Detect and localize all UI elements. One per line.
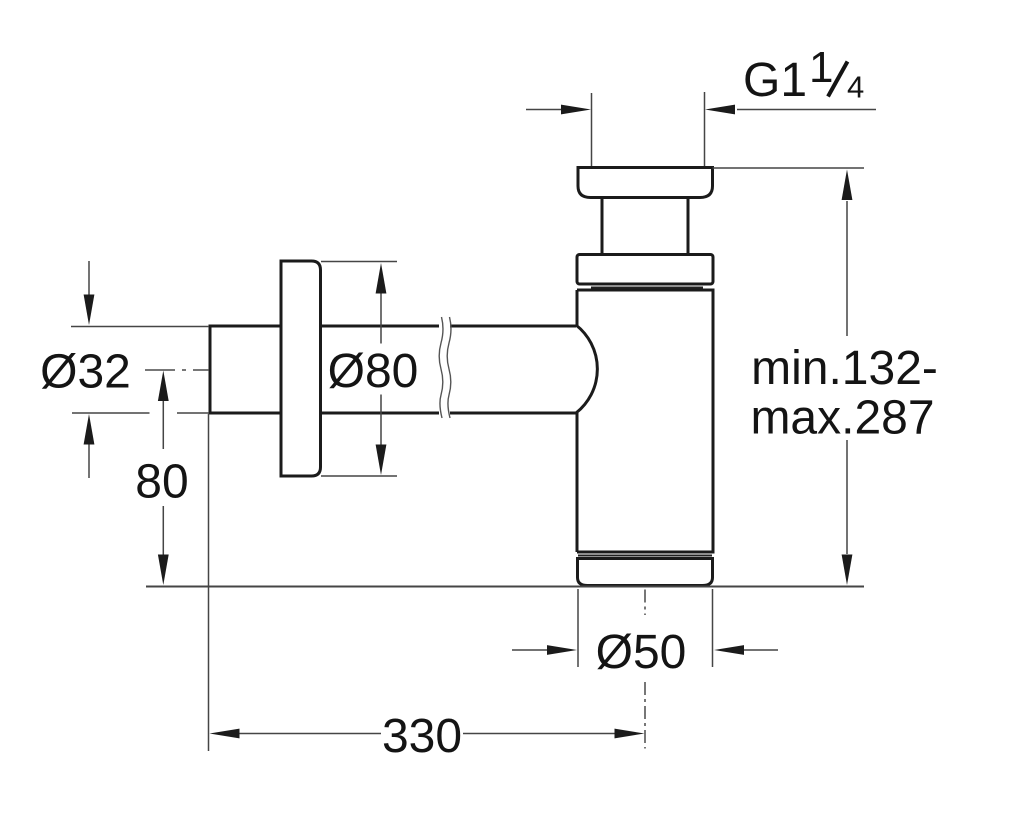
dia80 dimension line <box>380 292 382 446</box>
arrow dia80 down <box>376 445 387 476</box>
horizontal pipe top edge <box>210 325 576 328</box>
arrow dia32 down <box>84 295 95 326</box>
svg-text:330: 330 <box>382 710 462 763</box>
joint line above cap <box>578 555 712 557</box>
body centerline below <box>644 590 646 749</box>
minmax dimension line <box>846 201 848 554</box>
dim330 extension left <box>208 414 210 751</box>
arrow minmax down <box>842 555 853 586</box>
svg-text:max.287: max.287 <box>750 392 934 445</box>
dim330 dimension line <box>239 733 615 735</box>
arrow dia32 up <box>84 414 95 445</box>
dia50 extension left <box>577 589 579 667</box>
arrow dim80 up <box>158 371 169 402</box>
collar ring <box>577 255 713 285</box>
dia80 extension top <box>321 261 397 263</box>
dim80 dimension line <box>162 401 164 556</box>
arrow dia50 right <box>547 645 577 655</box>
G1 extension line right <box>704 92 706 166</box>
svg-text:4: 4 <box>847 70 864 105</box>
arrow dim330 right <box>615 729 645 739</box>
horizontal pipe bottom edge <box>210 412 576 415</box>
dia50 dimension line right <box>744 649 778 651</box>
pipe left end <box>209 325 212 415</box>
pipe break squiggle right <box>447 317 451 418</box>
arrow dia50 left <box>714 645 744 655</box>
svg-text:G1: G1 <box>743 54 807 107</box>
arrow dim80 down <box>158 555 169 586</box>
dia32 extension top <box>71 326 209 328</box>
dia50 extension right <box>712 589 714 667</box>
arrow dia80 up <box>376 263 387 294</box>
svg-text:min.132-: min.132- <box>751 342 938 395</box>
inlet neck <box>602 199 688 255</box>
dia32 arrow line bottom <box>88 444 90 478</box>
G1 extension line left <box>591 93 593 166</box>
arrow minmax up <box>842 170 853 201</box>
G1 dimension line left <box>526 109 562 111</box>
pipe break squiggle left <box>439 317 443 418</box>
inlet bulge arc <box>576 325 597 413</box>
dia80 extension bottom <box>321 475 397 477</box>
svg-text:Ø50: Ø50 <box>596 626 687 679</box>
baseline <box>146 586 864 588</box>
pipe centerline <box>145 369 209 371</box>
dia32 arrow line top <box>88 261 90 295</box>
svg-text:1: 1 <box>809 43 833 92</box>
svg-text:Ø80: Ø80 <box>328 345 419 398</box>
top reference line <box>713 167 865 169</box>
trap body <box>577 290 713 552</box>
wall flange <box>281 261 321 476</box>
dia50 dimension line left <box>512 649 548 651</box>
inlet flange <box>578 168 713 198</box>
G1 dimension line right <box>737 109 876 111</box>
joint line below collar <box>591 287 703 289</box>
arrow G1 right <box>705 105 735 115</box>
svg-text:80: 80 <box>135 456 188 509</box>
dia32 extension bottom <box>72 412 209 414</box>
arrow G1 left <box>561 105 591 115</box>
label G1 fraction slash <box>828 62 848 97</box>
arrow dim330 left <box>210 729 240 739</box>
bottom cap <box>578 559 713 586</box>
svg-text:Ø32: Ø32 <box>40 346 131 399</box>
